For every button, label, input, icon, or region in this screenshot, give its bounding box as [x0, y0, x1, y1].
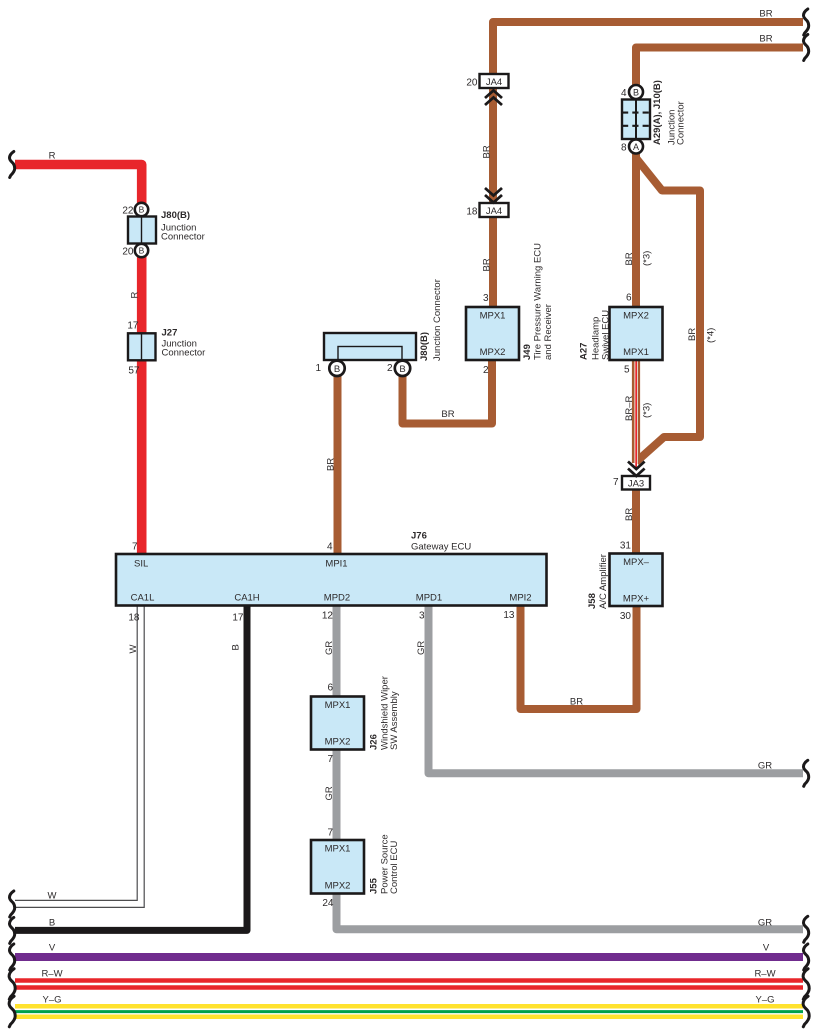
- junction connector J27 body: [128, 333, 156, 360]
- svg-text:J80(B): J80(B): [419, 332, 430, 361]
- arrow down above JA4 lower: [485, 188, 502, 203]
- connector JA3 (pin 7): [622, 476, 650, 490]
- svg-text:Connector: Connector: [162, 348, 206, 359]
- svg-text:MPX2: MPX2: [623, 311, 649, 322]
- svg-text:3: 3: [483, 293, 489, 304]
- svg-text:Control ECU: Control ECU: [389, 841, 400, 894]
- svg-text:MPX–: MPX–: [623, 557, 650, 568]
- arrow down above JA3: [628, 462, 645, 477]
- svg-text:MPX2: MPX2: [480, 347, 506, 358]
- svg-text:BR–R: BR–R: [624, 396, 635, 421]
- svg-text:MPX1: MPX1: [480, 311, 506, 322]
- svg-text:7: 7: [613, 477, 619, 488]
- svg-text:B: B: [399, 364, 405, 375]
- svg-text:Y–G: Y–G: [42, 995, 61, 1006]
- svg-text:CA1H: CA1H: [234, 593, 259, 604]
- svg-text:B: B: [139, 246, 145, 256]
- junction connector J80(B) bus bar terminal 1 circle B: [329, 361, 344, 376]
- svg-text:Connector: Connector: [161, 232, 205, 243]
- break symbol left R-W: [9, 969, 15, 1000]
- svg-text:J58: J58: [587, 593, 598, 609]
- svg-text:BR: BR: [481, 145, 492, 158]
- svg-text:(*3): (*3): [642, 251, 653, 266]
- svg-text:13: 13: [503, 610, 515, 621]
- svg-text:MPX2: MPX2: [325, 737, 351, 748]
- break symbol left Y-G: [9, 996, 15, 1027]
- svg-text:57: 57: [128, 366, 140, 377]
- svg-text:BR: BR: [441, 409, 454, 420]
- svg-text:A29(A), J10(B): A29(A), J10(B): [652, 80, 663, 145]
- svg-text:J49: J49: [522, 344, 533, 360]
- junction connector A29(A),J10(B) terminal B circle: [629, 85, 643, 99]
- wire GR from J76 MPD1 pin 3 to right edge: [429, 606, 804, 773]
- wire BR J80(B) terminal 2 to J49 pin 2: [403, 360, 493, 424]
- svg-text:1: 1: [315, 363, 321, 374]
- svg-text:B: B: [49, 918, 55, 929]
- svg-text:MPI1: MPI1: [325, 559, 347, 570]
- svg-text:4: 4: [327, 542, 333, 553]
- svg-text:7: 7: [327, 828, 333, 839]
- svg-text:31: 31: [620, 541, 632, 552]
- ECU J58 A/C Amplifier box: [610, 554, 663, 607]
- wire BR branch (*4) from node A to JA3 arrow: [636, 158, 700, 462]
- break symbol right R-W: [803, 969, 809, 1000]
- svg-text:A27: A27: [579, 343, 590, 360]
- svg-text:GR: GR: [324, 786, 335, 800]
- svg-text:Y–G: Y–G: [755, 995, 774, 1006]
- svg-text:W: W: [128, 645, 139, 654]
- svg-text:A/C Amplifier: A/C Amplifier: [598, 554, 609, 609]
- svg-text:MPD1: MPD1: [416, 593, 442, 604]
- connector JA4 lower (pin 18): [480, 203, 509, 217]
- svg-text:B: B: [139, 205, 145, 215]
- svg-text:22: 22: [122, 206, 134, 217]
- junction connector J80(B) bus bar terminal 2 circle B: [395, 361, 410, 376]
- svg-text:SIL: SIL: [134, 559, 148, 570]
- svg-text:R–W: R–W: [754, 969, 775, 980]
- svg-text:V: V: [49, 943, 56, 954]
- svg-text:(*3): (*3): [642, 403, 653, 418]
- wire BR-R from A27 pin 5 to JA3 arrow: [632, 360, 640, 470]
- svg-text:Gateway ECU: Gateway ECU: [411, 542, 471, 553]
- ECU J76 Gateway ECU box: [116, 554, 547, 606]
- svg-text:J26: J26: [369, 734, 380, 750]
- svg-text:JA4: JA4: [486, 206, 502, 217]
- wire B from J76 CA1H pin 17 to left edge: [15, 606, 247, 930]
- wire R from left edge to J76 SIL pin 7: [15, 165, 142, 555]
- svg-text:B: B: [334, 364, 340, 375]
- svg-text:6: 6: [626, 293, 632, 304]
- svg-text:MPX1: MPX1: [325, 844, 351, 855]
- svg-text:MPX2: MPX2: [325, 881, 351, 892]
- svg-text:R: R: [129, 292, 140, 299]
- wire Y-G full width: [15, 1006, 803, 1017]
- svg-text:Swivel ECU: Swivel ECU: [601, 310, 612, 360]
- break symbol left W: [10, 891, 15, 917]
- svg-text:BR: BR: [759, 9, 772, 20]
- junction connector A29(A),J10(B) body: [622, 100, 650, 140]
- svg-text:6: 6: [327, 683, 333, 694]
- svg-text:MPI2: MPI2: [509, 593, 531, 604]
- break symbol left V: [10, 944, 15, 970]
- wire W from J76 CA1L pin 18 to left edge (outlined white wire): [15, 606, 144, 907]
- svg-text:BR: BR: [481, 258, 492, 271]
- svg-text:7: 7: [327, 754, 333, 765]
- wire BR top horizontal 2 + down to A27: [636, 48, 803, 308]
- svg-text:MPD2: MPD2: [324, 593, 350, 604]
- svg-text:BR: BR: [624, 252, 635, 265]
- svg-text:R–W: R–W: [41, 969, 62, 980]
- switch J26 Windshield Wiper SW Assembly box: [311, 697, 364, 750]
- svg-text:7: 7: [132, 542, 138, 553]
- break symbol right GR bottom: [804, 916, 809, 942]
- svg-text:V: V: [763, 943, 770, 954]
- wire V full width: [15, 953, 803, 961]
- svg-text:24: 24: [322, 898, 334, 909]
- svg-text:17: 17: [127, 321, 139, 332]
- svg-text:30: 30: [620, 611, 632, 622]
- svg-text:MPX1: MPX1: [623, 347, 649, 358]
- svg-text:12: 12: [322, 611, 334, 622]
- wire BR J58 pin 30 to J76 MPI2 pin 13 (U shape): [521, 606, 637, 709]
- svg-text:5: 5: [624, 365, 630, 376]
- ECU J55 Power Source Control ECU box: [311, 840, 364, 894]
- svg-text:3: 3: [419, 611, 425, 622]
- wire BR J80(B) terminal 1 to J76 MPI1 pin 4: [334, 372, 342, 554]
- svg-text:BR: BR: [759, 34, 772, 45]
- svg-text:(*4): (*4): [706, 328, 717, 343]
- svg-text:J55: J55: [369, 877, 380, 894]
- svg-text:GR: GR: [324, 641, 335, 655]
- svg-text:A: A: [633, 142, 639, 152]
- svg-text:CA1L: CA1L: [131, 593, 155, 604]
- svg-text:8: 8: [621, 143, 627, 154]
- svg-text:BR: BR: [687, 328, 698, 341]
- svg-text:JA4: JA4: [486, 77, 502, 88]
- svg-text:Junction Connector: Junction Connector: [432, 279, 443, 361]
- break symbol right BR 2: [804, 35, 809, 61]
- break symbol right V: [804, 944, 809, 970]
- svg-text:MPX+: MPX+: [623, 594, 650, 605]
- svg-text:18: 18: [466, 207, 478, 218]
- break symbol right GR MPD1: [804, 760, 809, 786]
- svg-text:4: 4: [621, 88, 627, 99]
- svg-text:18: 18: [128, 613, 140, 624]
- svg-text:B: B: [633, 87, 639, 97]
- svg-text:J80(B): J80(B): [161, 210, 190, 221]
- svg-text:W: W: [48, 891, 57, 902]
- svg-text:B: B: [231, 644, 242, 650]
- break symbol right BR 1: [804, 9, 809, 35]
- svg-text:20: 20: [122, 247, 134, 258]
- svg-text:MPX1: MPX1: [325, 700, 351, 711]
- svg-text:J76: J76: [411, 531, 427, 542]
- arrow up below JA4 upper: [485, 91, 502, 106]
- svg-text:JA3: JA3: [628, 479, 644, 490]
- svg-text:Connector: Connector: [676, 101, 687, 145]
- svg-text:BR: BR: [624, 508, 635, 521]
- junction connector J80(B) left terminal 20 circle B: [135, 244, 148, 257]
- svg-text:GR: GR: [416, 641, 427, 655]
- junction connector J80(B) left terminal 22 circle B: [135, 203, 148, 216]
- svg-text:J27: J27: [162, 328, 178, 339]
- ECU A27 Headlamp Swivel ECU box: [610, 307, 663, 360]
- connector JA4 upper (pin 20): [480, 74, 509, 88]
- svg-text:2: 2: [387, 363, 393, 374]
- svg-text:Tire Pressure Warning ECU: Tire Pressure Warning ECU: [533, 243, 544, 360]
- break symbol left R: [10, 152, 15, 178]
- svg-text:GR: GR: [758, 761, 772, 772]
- svg-text:BR: BR: [326, 458, 337, 471]
- junction connector J80(B) bus bar body: [324, 333, 416, 360]
- svg-text:GR: GR: [758, 918, 772, 929]
- wire GR from J76 MPD2 pin 12 through J26, J55 to right edge: [337, 606, 804, 929]
- ECU J49 Tire Pressure Warning ECU and Receiver box: [466, 307, 519, 360]
- svg-text:BR: BR: [570, 697, 583, 708]
- svg-text:20: 20: [466, 78, 478, 89]
- break symbol right Y-G: [803, 996, 809, 1027]
- svg-text:R: R: [49, 151, 56, 162]
- svg-text:2: 2: [483, 365, 489, 376]
- junction connector A29(A),J10(B) terminal A circle: [629, 140, 643, 154]
- break symbol left B: [10, 917, 15, 943]
- wire BR top horizontal 1 + down to J49: [493, 22, 803, 307]
- wire R-W full width: [15, 981, 803, 988]
- svg-text:17: 17: [232, 613, 244, 624]
- svg-text:SW Assembly: SW Assembly: [389, 691, 400, 750]
- junction connector J80(B) left body: [128, 217, 156, 244]
- wire BR JA3 to J58: [632, 489, 640, 554]
- svg-text:and Receiver: and Receiver: [543, 304, 554, 360]
